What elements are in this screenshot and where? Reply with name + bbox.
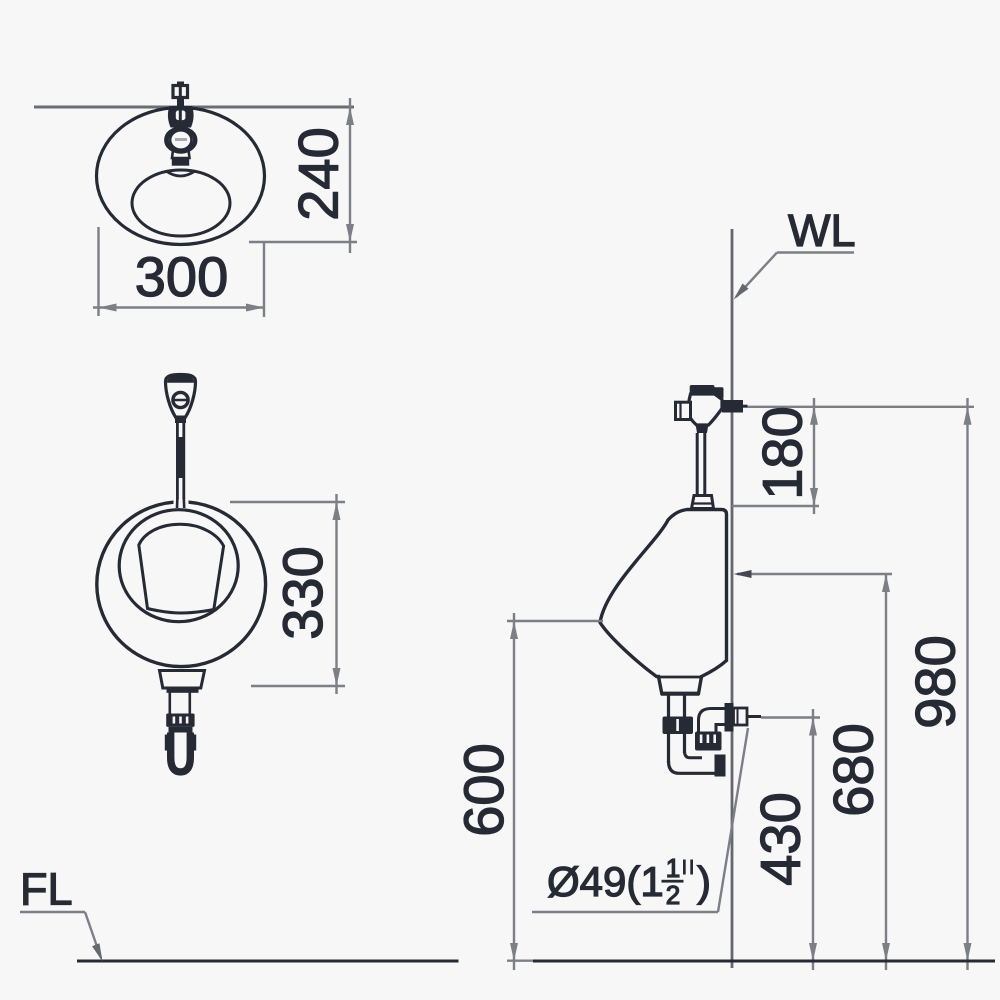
svg-text:WL: WL xyxy=(788,205,856,256)
dim 680 xyxy=(734,570,893,970)
outlet junction line (side) xyxy=(659,676,702,679)
FL label xyxy=(20,864,106,963)
dim 430 xyxy=(749,709,821,970)
dim 240 xyxy=(249,98,357,253)
svg-text:180: 180 xyxy=(751,406,814,499)
urinal body (side) xyxy=(600,510,727,694)
wall line xyxy=(731,229,734,968)
svg-text:330: 330 xyxy=(271,546,334,639)
top view wall line / 240 top extension xyxy=(34,106,354,109)
svg-text:680: 680 xyxy=(822,723,885,816)
flush valve (side) xyxy=(676,385,748,433)
svg-text:300: 300 xyxy=(135,245,228,308)
pipe entry collar (front) xyxy=(174,498,189,508)
svg-text:): ) xyxy=(697,858,711,905)
flush valve (front) xyxy=(166,375,196,424)
svg-text:600: 600 xyxy=(452,743,515,836)
svg-text:980: 980 xyxy=(904,635,967,728)
svg-text:Ø49(1: Ø49(1 xyxy=(547,858,664,905)
dim 330 xyxy=(230,494,345,694)
bowl outer rim (front) xyxy=(97,502,266,667)
drain piping (side) xyxy=(663,695,762,777)
diameter label Ø49(1 1/2") xyxy=(532,728,748,912)
top view inner rim xyxy=(132,170,230,236)
bowl inner rim (front) xyxy=(119,510,238,622)
WL label xyxy=(731,205,856,302)
splash target (front) xyxy=(139,524,224,613)
svg-text:240: 240 xyxy=(287,127,350,220)
top view spreader bump xyxy=(166,171,195,176)
dim 300 xyxy=(93,227,265,317)
dim 180 xyxy=(732,398,974,514)
supply pipe (front) xyxy=(177,423,185,504)
dim 600 xyxy=(452,613,603,970)
flush valve (top view) xyxy=(167,82,196,166)
svg-text:430: 430 xyxy=(749,792,812,885)
dim 980 xyxy=(904,398,972,970)
svg-text:1: 1 xyxy=(666,853,680,883)
floor line xyxy=(77,960,459,963)
svg-text:2: 2 xyxy=(666,880,680,910)
top view outer rim xyxy=(97,108,265,245)
drain assembly (front) xyxy=(160,671,205,772)
supply pipe (side) xyxy=(692,433,714,509)
svg-text:FL: FL xyxy=(20,864,73,915)
